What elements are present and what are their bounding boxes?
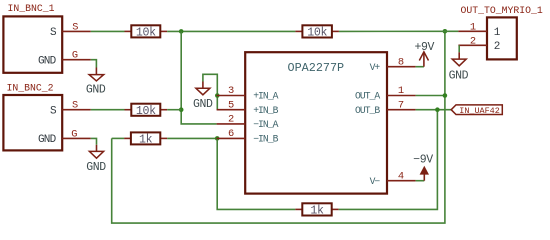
resistor R2 10k <box>125 104 168 118</box>
pin 8 of U1 <box>387 66 416 68</box>
svg-text:V−: V− <box>370 176 381 187</box>
svg-text:10k: 10k <box>136 105 156 118</box>
pin S of IN_BNC_2 <box>62 109 91 111</box>
svg-text:+IN_B: +IN_B <box>253 105 278 116</box>
svg-text:IN_BNC_2: IN_BNC_2 <box>7 82 54 93</box>
wire R3 to pin 6 <box>167 137 216 139</box>
wire S2 to R2 <box>91 109 125 111</box>
svg-text:1k: 1k <box>310 205 324 218</box>
svg-text:IN_BNC_1: IN_BNC_1 <box>8 3 55 14</box>
svg-text:GND: GND <box>86 161 106 174</box>
ground GND4 <box>449 52 469 82</box>
svg-text:10k: 10k <box>307 27 327 40</box>
svg-text:+IN_A: +IN_A <box>253 91 278 102</box>
power +9V <box>414 41 434 67</box>
wire inner loop to OUT_B <box>339 110 438 210</box>
svg-text:V+: V+ <box>370 62 381 73</box>
pin 2 of J3 <box>458 44 487 46</box>
wire S1 to R1 <box>91 30 125 32</box>
pin 1 of J3 <box>458 30 487 32</box>
svg-text:2: 2 <box>470 36 476 48</box>
pin 3 of U1 <box>217 95 246 97</box>
svg-text:G: G <box>71 128 77 140</box>
svg-text:OUT_B: OUT_B <box>355 105 380 116</box>
connector J1 IN_BNC_1 <box>3 3 62 73</box>
svg-text:IN_UAF42: IN_UAF42 <box>459 106 500 116</box>
wire outer loop R3 left <box>112 137 124 139</box>
svg-text:2: 2 <box>228 114 234 126</box>
wire outer feedback loop <box>112 31 445 223</box>
svg-text:5: 5 <box>228 99 234 111</box>
svg-text:S: S <box>72 100 78 112</box>
pin 6 of U1 <box>217 137 246 139</box>
wire R4 row <box>339 30 459 32</box>
resistor R3 1k <box>124 132 167 146</box>
svg-text:OUT_A: OUT_A <box>355 91 380 102</box>
resistor R1 10k <box>125 25 168 39</box>
wire OUT_A to feedback vertical <box>416 95 445 97</box>
svg-text:1: 1 <box>470 22 476 34</box>
power -9V <box>413 153 433 180</box>
svg-text:3: 3 <box>228 85 234 97</box>
svg-text:−9V: −9V <box>413 153 433 166</box>
svg-text:10k: 10k <box>136 26 156 39</box>
junction OUT_B <box>435 107 440 112</box>
wire pin 2 to ground <box>458 45 460 52</box>
ground GND3 <box>193 82 213 111</box>
ground hook wire at pins 3 5 <box>203 74 217 109</box>
wire pin 8 to +9V <box>416 66 424 68</box>
pin 4 of U1 <box>387 180 416 182</box>
pin S of IN_BNC_1 <box>62 30 91 32</box>
wire inner feedback loop <box>217 138 295 209</box>
svg-text:1k: 1k <box>139 134 153 147</box>
junction node A / R2 <box>179 107 184 112</box>
svg-text:GND: GND <box>38 134 57 146</box>
svg-text:−IN_B: −IN_B <box>253 134 278 145</box>
hierarchical label IN_UAF42 <box>451 105 502 116</box>
svg-text:6: 6 <box>228 128 234 140</box>
svg-text:7: 7 <box>398 99 404 111</box>
svg-text:+9V: +9V <box>414 41 434 54</box>
junction node A row right <box>443 29 448 34</box>
pin 7 of U1 <box>387 109 416 111</box>
pin GND of IN_BNC_1 <box>62 59 91 61</box>
ground GND1 <box>86 68 106 97</box>
wire R1 to node A <box>167 30 295 32</box>
ground GND2 <box>86 145 106 174</box>
junction OUT_A <box>443 93 448 98</box>
svg-text:4: 4 <box>398 170 404 182</box>
svg-text:8: 8 <box>398 56 404 68</box>
junction node A <box>179 29 184 34</box>
svg-text:GND: GND <box>449 69 469 82</box>
connector J3 OUT_TO_MYRIO_1 <box>461 5 543 60</box>
svg-text:OUT_TO_MYRIO_1: OUT_TO_MYRIO_1 <box>461 5 543 16</box>
svg-text:1: 1 <box>398 85 404 97</box>
wire G2 to ground <box>91 138 97 144</box>
svg-text:GND: GND <box>38 56 57 68</box>
junction pin 6 node <box>215 136 220 141</box>
pin 1 of U1 <box>387 95 416 97</box>
wire pin 4 to -9V <box>416 180 425 182</box>
pin 2 of U1 <box>217 123 246 125</box>
svg-text:S: S <box>72 21 78 33</box>
svg-text:−IN_A: −IN_A <box>253 119 278 130</box>
svg-text:G: G <box>72 50 78 62</box>
pin GND of IN_BNC_2 <box>62 137 91 139</box>
connector J2 IN_BNC_2 <box>3 82 62 150</box>
svg-text:OPA2277P: OPA2277P <box>288 61 345 75</box>
svg-text:GND: GND <box>193 98 213 111</box>
pin 5 of U1 <box>217 109 246 111</box>
svg-text:2: 2 <box>494 41 500 53</box>
resistor R4 10k <box>295 25 339 39</box>
op-amp U1 OPA2277P <box>245 52 387 193</box>
junction pin 3 node <box>215 93 220 98</box>
wire R2 to node A <box>167 109 181 111</box>
wire OUT_B to label <box>416 109 452 111</box>
resistor R5 1k <box>295 203 338 217</box>
svg-text:GND: GND <box>86 83 106 96</box>
wire node A vertical to pin 2 <box>181 31 216 124</box>
wire G1 to ground <box>91 60 97 68</box>
